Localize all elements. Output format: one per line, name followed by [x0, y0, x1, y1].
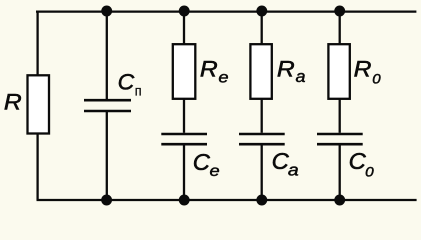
svg-text:R: R — [4, 89, 22, 114]
svg-text:0: 0 — [372, 70, 381, 86]
svg-text:a: a — [288, 162, 299, 180]
svg-text:R: R — [200, 56, 218, 81]
svg-text:R: R — [277, 56, 295, 81]
svg-text:C: C — [118, 69, 135, 94]
svg-text:0: 0 — [365, 163, 374, 179]
svg-text:a: a — [296, 68, 306, 86]
svg-text:e: e — [218, 70, 228, 87]
svg-text:п: п — [135, 83, 142, 98]
svg-text:C: C — [272, 148, 290, 174]
svg-text:R: R — [354, 56, 372, 81]
svg-text:C: C — [349, 148, 367, 174]
svg-text:C: C — [193, 149, 211, 175]
svg-text:e: e — [210, 163, 220, 180]
